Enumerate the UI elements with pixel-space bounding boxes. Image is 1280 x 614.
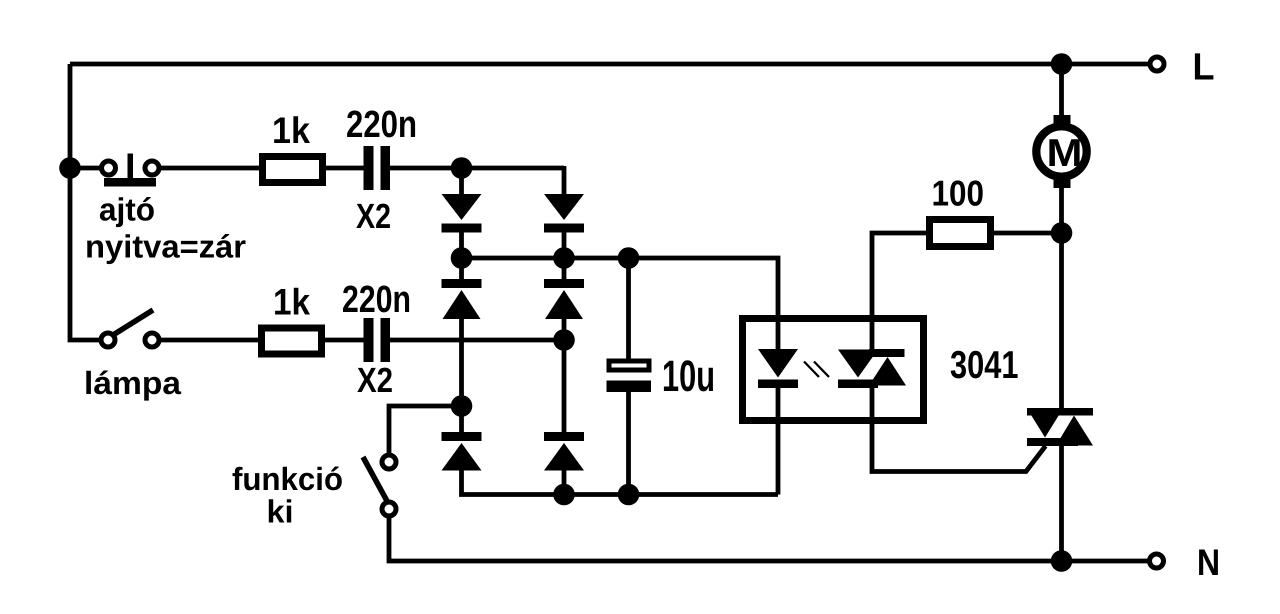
label X2 C1 [356, 204, 390, 228]
label N [1199, 550, 1218, 576]
transistor phototriac in opto [838, 349, 906, 388]
capacitor C1 220n [364, 146, 391, 190]
label 100 [934, 180, 983, 206]
node junction dot col2 row B [553, 247, 575, 269]
wire row D funkcio branch [389, 406, 462, 454]
label ki [269, 499, 291, 522]
diode D3 col1 up [442, 279, 482, 319]
label 220n C1 [347, 111, 415, 138]
capacitor C3 10u electrolytic [607, 361, 652, 392]
transistor TR1 power triac [1027, 408, 1093, 446]
switch S1 ajto (NC pushbutton) [102, 154, 160, 187]
wire left vertical rail [70, 64, 99, 340]
terminal L [1150, 57, 1164, 71]
wire row A dot to switch [70, 166, 100, 171]
diode D4 col2 up [544, 279, 584, 319]
label 10u [664, 360, 713, 391]
wire main right vertical to triac [1059, 233, 1064, 410]
wire funkcio switch to bottom rail [389, 517, 1148, 561]
label 220n C2 [343, 286, 409, 313]
label lampa [86, 371, 181, 401]
wire triac to bottom rail [1059, 444, 1064, 561]
label ajto [100, 197, 154, 227]
label funkcio [233, 467, 342, 491]
node junction dot capcol row E [618, 484, 640, 506]
node junction dot capcol row B [618, 247, 640, 269]
wire motor top [1059, 64, 1064, 118]
wire C1 to col2 corner [390, 166, 564, 171]
wire col1 segment B-D [459, 318, 464, 433]
wire row C lamp branch [160, 338, 258, 343]
node junction dot col2 row C [553, 329, 575, 351]
label L [1195, 53, 1214, 79]
resistor R2 1k [262, 328, 322, 354]
wire R1 to C1 [326, 166, 364, 171]
wire col2 segment A-B [562, 166, 567, 196]
diode D1 col1 down [442, 194, 482, 233]
wire switch to R1 [160, 166, 259, 171]
light arrows [804, 362, 829, 378]
label 1k R1 [274, 116, 310, 143]
node junction dot col1 row B [451, 247, 473, 269]
label nyitva=zar [87, 234, 245, 264]
node junction dot motor/100 [1051, 222, 1073, 244]
node junction dot left row A [59, 157, 81, 179]
label M motor [1049, 139, 1079, 166]
wire col1 segment A-B [459, 168, 464, 196]
wire LED cathode down [776, 386, 781, 495]
wire top L rail [70, 62, 1148, 67]
node junction dot col1 row A [451, 157, 473, 179]
label 3041 [951, 351, 1018, 379]
diode D2 col2 down [544, 194, 584, 233]
wire motor bottom [1059, 186, 1064, 233]
node junction dot col1 row D [451, 395, 473, 417]
wire row B to opto LED [462, 258, 779, 350]
label 1k R2 [275, 288, 310, 315]
wire col1 segment to row E corner [462, 469, 779, 495]
motor M1 [1036, 115, 1086, 188]
node junction dot bottom N [1051, 550, 1073, 572]
wire opto triac pin down / gate [872, 386, 1046, 472]
wire cap column [626, 258, 631, 360]
optocoupler U1 MOC3041 box [743, 319, 924, 421]
resistor R1 1k [263, 157, 323, 183]
wire col2 segment B-E [562, 318, 567, 433]
switch S2 lampa [101, 310, 159, 347]
switch S3 funkcio [363, 455, 396, 516]
node junction dot col2 row E [553, 484, 575, 506]
terminal N [1150, 554, 1164, 568]
diode LED in opto [758, 349, 798, 388]
resistor R3 100 [930, 220, 991, 247]
diode D5 col1 up bottom [442, 432, 482, 471]
node junction dot top motor [1051, 53, 1073, 75]
wire 100 resistor branch [872, 233, 926, 351]
diode D6 col2 up bottom [544, 432, 584, 471]
capacitor C2 220n [364, 318, 391, 362]
label X2 C2 [357, 368, 392, 392]
